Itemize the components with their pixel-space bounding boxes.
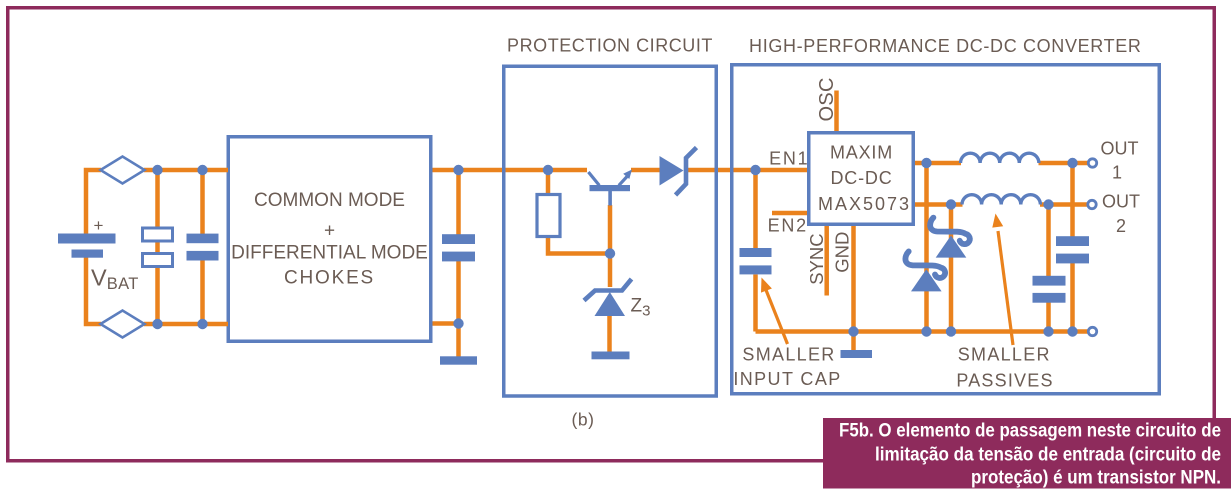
wire OUT2 net — [915, 202, 1088, 207]
svg-text:HIGH-PERFORMANCE DC-DC CONVERT: HIGH-PERFORMANCE DC-DC CONVERTER — [749, 36, 1141, 56]
label SMALLER PASSIVES — [956, 345, 1053, 391]
battery V_BAT — [58, 216, 139, 293]
capacitor C5 — [1056, 236, 1089, 263]
svg-text:(b): (b) — [572, 410, 595, 430]
arrow to smaller passives — [992, 214, 1013, 346]
wire battery negative to bottom rail — [86, 257, 101, 324]
wire capacitor C5 column — [1070, 163, 1075, 332]
node OUT1 left — [921, 158, 931, 168]
fuse element F1 (diamond) — [101, 157, 145, 184]
svg-text:OUT: OUT — [1102, 192, 1140, 212]
wire GND pin to bottom rail — [851, 225, 856, 332]
transistor Q1 (NPN pass element) — [588, 170, 632, 206]
svg-text:SMALLER: SMALLER — [958, 345, 1051, 365]
wire resistor R1 branch — [548, 170, 610, 254]
wire zener Z2 column — [924, 163, 929, 332]
node resistor R1 top — [543, 165, 553, 175]
filter element box 1 — [143, 228, 173, 241]
svg-text:INPUT CAP: INPUT CAP — [733, 369, 841, 389]
svg-text:limitação da tensão de entrada: limitação da tensão de entrada (circuito… — [875, 444, 1221, 466]
svg-text:+: + — [324, 221, 335, 242]
capacitor C4 — [1033, 276, 1066, 303]
svg-text:+: + — [94, 216, 104, 235]
svg-text:2: 2 — [1116, 216, 1126, 236]
node rail zener Z2 — [921, 326, 931, 336]
arrow to smaller input cap — [761, 278, 788, 345]
svg-text:SYNC: SYNC — [806, 233, 827, 284]
svg-text:MAXIM: MAXIM — [830, 143, 893, 163]
zener diode D1 (series pass) — [660, 148, 697, 196]
node OUT1 right — [1067, 158, 1077, 168]
svg-text:1: 1 — [1112, 163, 1122, 183]
wire diode D1 to EN1 — [688, 168, 808, 173]
wire chokes output to protection circuit — [433, 168, 588, 173]
MAXIM DC-DC MAX5073 block U1 — [809, 133, 914, 225]
wire SYNC pin stub — [824, 225, 829, 296]
wire OSC pin — [834, 91, 839, 133]
terminal OUT2 — [1088, 200, 1096, 208]
ground G1 — [440, 356, 477, 364]
wire EN2 stub — [772, 211, 808, 216]
protection circuit box — [504, 66, 717, 396]
ground G2 — [592, 352, 630, 360]
label OUT 2 — [1102, 192, 1140, 237]
label OUT 1 — [1101, 139, 1139, 183]
wire filter column A — [155, 170, 160, 324]
filter element box 2 — [143, 254, 173, 267]
resistor R1 — [537, 195, 560, 237]
wire bottom rail to chokes — [144, 322, 228, 327]
wire capacitor C1 column — [200, 170, 205, 324]
terminal bottom rail — [1088, 327, 1096, 335]
svg-text:SMALLER: SMALLER — [742, 345, 835, 365]
node OUT2 right — [1043, 199, 1053, 209]
wire emitter to diode D1 — [631, 168, 660, 173]
terminal OUT1 — [1088, 159, 1096, 167]
wire capacitor C4 column — [1046, 205, 1051, 332]
node OUT2 left — [946, 199, 956, 209]
caption box F5b — [823, 418, 1231, 489]
wire zener Z1 column — [949, 205, 954, 332]
node transistor base — [605, 248, 615, 258]
wire chokes bottom stub — [433, 321, 459, 326]
svg-text:COMMON MODE: COMMON MODE — [254, 190, 405, 211]
node top rail A — [152, 165, 162, 175]
wire top rail to chokes input — [144, 168, 228, 173]
wire battery positive to top rail — [86, 170, 101, 235]
converter box — [732, 65, 1160, 394]
node bottom rail B — [197, 319, 207, 329]
node bottom rail A — [152, 319, 162, 329]
zener diode Z3 — [584, 279, 650, 320]
capacitor C3 (smaller input cap) — [740, 248, 772, 274]
wire capacitor C2 column to ground G1 — [456, 170, 461, 357]
node rail capacitor C4 — [1043, 326, 1053, 336]
wire ground G3 stub — [851, 332, 856, 353]
svg-text:GND: GND — [832, 232, 853, 273]
fuse element F2 (diamond) — [101, 311, 145, 338]
inductor L2 — [962, 195, 1040, 205]
svg-text:EN1: EN1 — [769, 149, 809, 169]
svg-text:EN2: EN2 — [768, 216, 808, 236]
svg-text:PASSIVES: PASSIVES — [956, 371, 1053, 391]
svg-text:MAX5073: MAX5073 — [818, 194, 911, 214]
zener diode Z2 — [905, 251, 945, 291]
svg-text:OUT: OUT — [1101, 139, 1139, 159]
svg-text:PROTECTION CIRCUIT: PROTECTION CIRCUIT — [507, 36, 713, 56]
svg-text:OSC: OSC — [816, 77, 838, 121]
wire input capacitor C3 column — [753, 170, 758, 332]
node GND rail — [848, 326, 858, 336]
capacitor C2 — [442, 234, 475, 261]
node EN1 input — [750, 165, 760, 175]
wire transistor base to zener Z3 — [608, 205, 613, 287]
svg-text:proteção) é um transistor NPN.: proteção) é um transistor NPN. — [971, 467, 1221, 489]
node rail zener Z1 — [946, 326, 956, 336]
wire converter bottom rail — [756, 329, 1089, 334]
node top rail B — [197, 165, 207, 175]
block U2: COMMON MODE + DIFFERENTIAL MODE CHOKES — [228, 137, 431, 342]
svg-text:DC-DC: DC-DC — [831, 168, 893, 188]
inductor L1 — [961, 153, 1039, 163]
zener diode Z1 — [930, 218, 970, 258]
node chokes bottom — [453, 318, 463, 328]
wire zener Z3 anode to ground G2 — [607, 315, 612, 352]
ground G3 — [841, 350, 873, 358]
svg-text:CHOKES: CHOKES — [284, 268, 375, 289]
wire OUT1 net — [915, 161, 1089, 166]
capacitor C1 — [187, 234, 219, 261]
node rail capacitor C5 — [1067, 326, 1077, 336]
svg-text:DIFFERENTIAL MODE: DIFFERENTIAL MODE — [231, 243, 428, 264]
node chokes output — [453, 165, 463, 175]
label SMALLER INPUT CAP — [733, 345, 841, 390]
svg-text:F5b. O elemento de passagem ne: F5b. O elemento de passagem neste circui… — [839, 420, 1221, 442]
